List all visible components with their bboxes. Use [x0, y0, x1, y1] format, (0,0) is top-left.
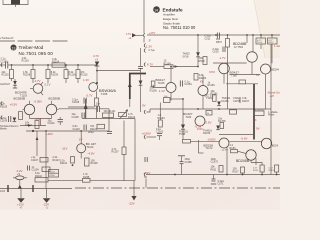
- svg-text:R1109: R1109: [51, 74, 59, 77]
- svg-text:BD24: BD24: [271, 68, 279, 72]
- svg-text:0.5V: 0.5V: [206, 121, 212, 125]
- resistor R1103 label: [22, 57, 30, 63]
- transistor BD245B upper: [199, 150, 263, 165]
- svg-text:5.1V: 5.1V: [45, 82, 51, 86]
- svg-text:D1151: D1151: [222, 100, 230, 103]
- resistor R1106b: [85, 158, 99, 166]
- wire: [45, 131, 47, 189]
- capacitor C1101: [1, 58, 9, 69]
- svg-text:1.1V: 1.1V: [159, 89, 165, 93]
- wire: [219, 134, 254, 136]
- wire mid vertical: [140, 48, 142, 66]
- resistor R1110: [35, 172, 48, 182]
- trimmer R1120: [119, 109, 136, 119]
- svg-text:1.7V: 1.7V: [220, 56, 226, 60]
- wire boundary hook: [145, 179, 147, 188]
- wire feedback: [20, 124, 46, 127]
- svg-text:R1108: R1108: [23, 74, 31, 77]
- module boundary vertical: [143, 0, 145, 33]
- svg-text:4.7V: 4.7V: [93, 54, 99, 58]
- resistor R1161: [211, 90, 219, 102]
- svg-text:+0.65V: +0.65V: [142, 132, 151, 136]
- svg-text:No. 75011 010 00: No. 75011 010 00: [163, 25, 196, 30]
- capacitor C1107: [31, 156, 39, 162]
- resistor R507: [216, 35, 230, 109]
- label z.Melde: [268, 111, 278, 117]
- svg-text:BC550B: BC550B: [49, 97, 61, 101]
- resistor R512: [268, 38, 278, 44]
- svg-text:14: 14: [154, 8, 158, 12]
- wire left rail: [0, 64, 6, 66]
- wire verticals bottom right: [226, 147, 228, 175]
- svg-text:100 R1121: 100 R1121: [104, 110, 117, 113]
- supply arrow 4.7V: [93, 54, 99, 84]
- svg-text:R1102: R1102: [2, 74, 10, 77]
- capacitor C1162: [156, 128, 164, 140]
- wire bias: [26, 130, 109, 132]
- svg-text:-0.5V: -0.5V: [195, 124, 202, 128]
- capacitor C1180: [178, 156, 192, 175]
- svg-text:C1106: C1106: [0, 120, 8, 123]
- capacitor C1114: [138, 66, 143, 68]
- connector pin 1: [144, 63, 153, 67]
- svg-text:13: 13: [12, 46, 16, 50]
- svg-text:Platte: Platte: [268, 114, 275, 117]
- diode D1101: [13, 79, 17, 88]
- svg-text:1/18: 1/18: [0, 190, 5, 193]
- svg-text:R1106: R1106: [91, 162, 99, 165]
- svg-text:5Y58: 5Y58: [183, 55, 189, 58]
- svg-text:R1163: R1163: [158, 117, 166, 120]
- svg-text:-22V: -22V: [129, 202, 135, 206]
- svg-text:220µ: 220µ: [88, 131, 94, 134]
- svg-text:C1180: C1180: [185, 161, 193, 164]
- resistor R1104: [52, 58, 65, 67]
- capacitor C1106: [0, 116, 11, 123]
- resistor R519: [253, 165, 264, 175]
- svg-text:R518: R518: [269, 170, 275, 172]
- resistor R1102: [2, 65, 14, 81]
- svg-text:0V: 0V: [256, 126, 260, 130]
- svg-text:C511: C511: [205, 37, 211, 40]
- resistor R1157: [242, 97, 250, 103]
- wire: [160, 98, 184, 120]
- wire emitter bus: [59, 108, 98, 110]
- svg-text:C571: C571: [218, 183, 225, 186]
- resistor R1122: [90, 124, 105, 131]
- module boundary dashed (driver): [0, 40, 68, 42]
- svg-text:+17V: +17V: [149, 31, 156, 35]
- resistor R1101: [60, 157, 74, 167]
- wire: [229, 74, 260, 76]
- resistor R1108: [23, 65, 35, 83]
- connector pin 3: [144, 40, 151, 48]
- svg-text:0V: 0V: [142, 103, 146, 107]
- wire +17V rail: [147, 34, 280, 36]
- svg-text:1V: 1V: [79, 138, 83, 142]
- title badge 14: [153, 6, 160, 13]
- wire stubs R511 R512: [247, 35, 272, 63]
- svg-text:R12B: R12B: [50, 175, 56, 177]
- node junctions on rail: [197, 34, 273, 36]
- wire BC447 collector: [80, 130, 82, 158]
- svg-text:-off: -off: [270, 94, 274, 98]
- diode D1156: [203, 126, 220, 136]
- resistor R1154: [150, 60, 198, 69]
- wire collector: [97, 70, 141, 72]
- svg-text:5Y5B: 5Y5B: [179, 133, 185, 136]
- svg-text:C1162: C1162: [156, 131, 164, 134]
- wire: [133, 181, 135, 196]
- svg-text:T168: T168: [231, 74, 237, 77]
- transistor BD238: [204, 138, 230, 152]
- diode D1102: [13, 118, 17, 122]
- svg-text:No.7501 095 00: No.7501 095 00: [19, 51, 54, 56]
- node Stand-On: [268, 91, 281, 98]
- svg-text:0.5V: 0.5V: [209, 70, 215, 74]
- svg-text:12 T561: 12 T561: [234, 46, 244, 49]
- wire heavy link: [128, 74, 146, 108]
- svg-text:R611: R611: [211, 168, 217, 171]
- svg-text:-0.6V: -0.6V: [241, 137, 248, 141]
- svg-text:R1166: R1166: [208, 84, 216, 87]
- node arrow: [18, 180, 22, 189]
- transistor T1124 BC447: [77, 138, 97, 156]
- transistor T1165 BD417: [153, 66, 176, 101]
- capacitor C1108: [72, 98, 86, 105]
- module boundary dashed bottom: [75, 187, 280, 189]
- resistor R508: [199, 57, 208, 65]
- svg-text:R1103: R1103: [22, 60, 30, 63]
- wire: [82, 118, 135, 120]
- transistor T561: [247, 35, 258, 75]
- svg-text:-0.05V: -0.05V: [34, 99, 43, 103]
- svg-text:R511: R511: [257, 42, 263, 44]
- capacitor C1105: [72, 113, 85, 120]
- svg-text:3*: 3*: [149, 40, 151, 43]
- transistor T1104 BSW36/6: [83, 78, 117, 98]
- connector pin: [0, 185, 8, 193]
- svg-text:-11V: -11V: [62, 146, 68, 150]
- ground -22V: [43, 189, 51, 210]
- svg-text:C1107: C1107: [31, 159, 39, 162]
- svg-text:C1D3: C1D3: [50, 171, 56, 173]
- transistor T1103: [15, 82, 43, 98]
- connector pin input: [0, 63, 2, 67]
- connector pin bar: [32, 185, 34, 192]
- resistor R511: [256, 38, 266, 44]
- relay box: [49, 170, 59, 178]
- diode D1151: [217, 97, 231, 106]
- resistor R1156: [150, 81, 158, 92]
- resistor R1105a label: [0, 103, 8, 109]
- svg-text:0.7V: 0.7V: [87, 94, 93, 98]
- svg-text:4.7V: 4.7V: [35, 79, 41, 83]
- svg-text:R1115: R1115: [81, 74, 89, 77]
- wire: [123, 121, 125, 148]
- resistor R518: [269, 165, 279, 175]
- title badge 13: [11, 45, 17, 51]
- label Tonband-Stumm: [0, 125, 18, 131]
- connector pin 6: [142, 132, 157, 140]
- capacitor C1154: [180, 80, 192, 86]
- svg-text:C1108: C1108: [72, 101, 80, 104]
- transistor T1101 BC550B: [14, 97, 35, 115]
- capacitor C572: [145, 157, 147, 162]
- resistor R1111: [19, 112, 23, 120]
- connector pin aux2: [1, 116, 2, 120]
- resistor R1164: [194, 74, 207, 84]
- wire: [36, 131, 39, 156]
- resistor R1112: [25, 121, 39, 129]
- capacitor C1110: [48, 117, 64, 125]
- svg-text:C510: C510: [213, 51, 220, 54]
- transistor T169 BC327: [183, 112, 212, 131]
- wire signal arrow: [84, 99, 88, 119]
- resistor R1169: [197, 66, 265, 109]
- wire: [134, 119, 136, 182]
- svg-text:R1156: R1156: [150, 89, 158, 92]
- svg-text:1.3A: 1.3A: [274, 44, 280, 48]
- diode D1153: [179, 99, 189, 140]
- node junctions: [197, 108, 255, 110]
- wire right bus: [270, 44, 272, 175]
- resistor R183: [230, 144, 238, 153]
- capacitor C510: [213, 47, 226, 54]
- svg-text:C1123: C1123: [73, 128, 81, 131]
- svg-text:v.Tonband-T.: v.Tonband-T.: [0, 37, 14, 40]
- svg-text:T169: T169: [186, 116, 192, 119]
- node junction: [32, 130, 34, 132]
- resistor R1115: [76, 65, 88, 83]
- capacitor C1104: [28, 166, 40, 172]
- svg-text:C1101: C1101: [1, 60, 9, 63]
- svg-text:Treiber-Mod: Treiber-Mod: [19, 45, 44, 50]
- resistor R1113: [40, 156, 60, 162]
- node junctions: [174, 174, 277, 176]
- svg-text:T1172: T1172: [206, 147, 214, 150]
- wire mid bus: [150, 108, 271, 110]
- connector pin 5: [144, 110, 145, 114]
- resistor R516: [254, 109, 265, 115]
- resistor R1114: [83, 173, 91, 182]
- capacitor C511: [205, 33, 220, 41]
- resistor R1109: [46, 65, 59, 83]
- connector pin out: [144, 171, 151, 179]
- svg-text:R519: R519: [253, 170, 259, 172]
- transistor T1102 BC550B: [46, 97, 60, 115]
- resistor R517: [233, 167, 245, 175]
- svg-text:C1570: C1570: [211, 161, 219, 164]
- svg-text:R1113: R1113: [53, 159, 61, 162]
- resistor R1158: [206, 111, 212, 116]
- svg-text:-4.5V: -4.5V: [88, 152, 95, 156]
- wire: [48, 179, 83, 181]
- svg-text:GLP1U8: GLP1U8: [0, 83, 10, 86]
- svg-text:R507: R507: [216, 41, 223, 44]
- capacitor C1116: [88, 131, 112, 134]
- svg-text:-0.65V: -0.65V: [207, 138, 216, 142]
- svg-text:R508: R508: [199, 60, 206, 63]
- resistor R1167: [164, 96, 171, 103]
- capacitor C1570 label: [211, 158, 219, 164]
- svg-text:R1157: R1157: [242, 100, 250, 103]
- capacitor C1123: [73, 125, 87, 131]
- node junctions on left rail: [11, 64, 98, 66]
- svg-text:8.7V: 8.7V: [147, 63, 153, 67]
- svg-text:+20V: +20V: [46, 132, 53, 136]
- svg-text:BC550B: BC550B: [14, 97, 26, 101]
- resistor R1121: [103, 110, 117, 117]
- resistor R1166: [208, 81, 216, 87]
- resistor R1117: [95, 91, 99, 118]
- svg-text:10n: 10n: [96, 103, 101, 106]
- svg-text:17V: 17V: [126, 32, 131, 36]
- svg-text:0.22 R516: 0.22 R516: [255, 109, 265, 111]
- svg-text:1.3V: 1.3V: [83, 78, 89, 82]
- svg-text:BD245B: BD245B: [236, 159, 250, 163]
- transistor T168 BD417: [219, 63, 240, 77]
- svg-text:C1154: C1154: [185, 83, 193, 86]
- resistor R1163b: [183, 140, 262, 144]
- svg-text:C1155: C1155: [233, 100, 241, 103]
- node junction: [45, 130, 47, 132]
- svg-text:+0.5V: +0.5V: [10, 102, 18, 106]
- svg-text:1.3V: 1.3V: [146, 45, 152, 49]
- wire output bus: [146, 174, 280, 176]
- svg-text:R1116: R1116: [69, 74, 77, 77]
- svg-text:T1124: T1124: [87, 146, 95, 149]
- diode D501: [183, 35, 200, 67]
- svg-text:R1101: R1101: [60, 162, 68, 165]
- partial component box top-left: [3, 0, 28, 7]
- resistor R1107: [112, 147, 127, 181]
- wire base link: [213, 62, 247, 64]
- resistor R1768: [218, 117, 226, 128]
- svg-text:R1105: R1105: [0, 105, 8, 108]
- capacitor C1117: [13, 173, 27, 180]
- capacitor C575: [211, 175, 225, 186]
- capacitor C1111: [96, 103, 109, 112]
- wire: [108, 109, 110, 131]
- transistor label BD248B: [233, 42, 247, 49]
- capacitor C1155: [233, 97, 241, 103]
- svg-text:D1156: D1156: [203, 132, 211, 135]
- svg-text:C1104: C1104: [32, 169, 40, 172]
- wire pin link: [147, 109, 151, 112]
- resistor R1106: [64, 65, 76, 83]
- ground: [129, 196, 137, 206]
- ground +22V: [17, 189, 25, 210]
- wire diff pair: [22, 101, 58, 126]
- resistor R1163: [158, 114, 166, 127]
- resistor R6: [211, 166, 224, 173]
- transistor BD246B: [261, 138, 278, 148]
- wire: [90, 179, 134, 181]
- svg-text:+22V: +22V: [144, 171, 151, 175]
- resistor R1105: [42, 167, 50, 172]
- svg-text:BD24: BD24: [272, 144, 279, 147]
- svg-text:R1107: R1107: [112, 151, 120, 154]
- svg-text:0K: 0K: [253, 118, 257, 122]
- diode D1103: [139, 81, 143, 113]
- bus ground rail: [0, 188, 72, 190]
- transistor T1166 BC317: [198, 76, 215, 109]
- supply terminal 17V: [126, 32, 145, 40]
- svg-text:C1105: C1105: [72, 116, 80, 119]
- transistor T567: [261, 64, 280, 74]
- connector pin 2: [144, 49, 155, 53]
- wire: [68, 106, 95, 108]
- svg-text:Merke: Merke: [0, 128, 8, 131]
- svg-text:C1110: C1110: [48, 122, 56, 125]
- resistor R1167b: [230, 110, 237, 114]
- svg-text:0.7µs: 0.7µs: [149, 49, 156, 52]
- wire heavy right: [253, 84, 255, 140]
- svg-text:R517: R517: [233, 170, 240, 173]
- svg-text:T R08: T R08: [101, 93, 108, 96]
- connector pin aux: [1, 102, 2, 106]
- svg-text:T1165: T1165: [158, 82, 166, 85]
